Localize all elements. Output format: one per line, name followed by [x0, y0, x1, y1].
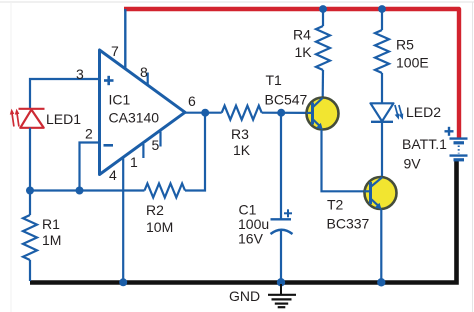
pin number 4 — [109, 167, 117, 183]
svg-text:BATT.1: BATT.1 — [402, 136, 447, 152]
svg-text:IC1: IC1 — [109, 92, 131, 108]
wire T2 emitter to ground — [380, 209, 382, 281]
wire pin 7 to V+ — [124, 9, 126, 70]
svg-text:8: 8 — [140, 64, 148, 80]
wire LED1 cathode down — [29, 128, 31, 191]
label T1 BC547 — [265, 72, 308, 108]
wire op-amp output node — [185, 112, 222, 114]
pin number 7 — [111, 43, 119, 59]
node junction R5/V+ — [378, 5, 386, 13]
svg-text:16V: 16V — [238, 231, 264, 247]
svg-text:1: 1 — [130, 154, 138, 170]
pin number 2 — [85, 126, 93, 142]
svg-text:1K: 1K — [295, 44, 313, 60]
svg-text:1M: 1M — [42, 232, 61, 248]
svg-text:5: 5 — [152, 137, 160, 153]
wire ground rail (black) — [30, 160, 457, 283]
wire pin 2 drop — [80, 143, 100, 191]
svg-text:10M: 10M — [146, 219, 173, 235]
label GND — [229, 288, 260, 304]
wire inverting net horizontal — [30, 189, 145, 191]
svg-text:LED2: LED2 — [406, 104, 441, 120]
svg-text:3: 3 — [76, 66, 84, 82]
node junction R4/V+ — [319, 5, 327, 13]
pin number 6 — [188, 93, 196, 109]
label C1 value — [238, 202, 269, 247]
wire T1 emitter to T2 base — [322, 130, 365, 192]
pin number 5 — [152, 137, 160, 153]
ground GND symbol — [268, 284, 296, 307]
label LED2 — [406, 104, 441, 120]
svg-text:BC547: BC547 — [265, 92, 308, 108]
svg-text:LED1: LED1 — [46, 111, 81, 127]
label BATT.1 9V — [402, 136, 447, 172]
capacitor C1 — [271, 113, 293, 281]
label R5 value — [396, 37, 429, 71]
svg-text:T2: T2 — [327, 197, 344, 213]
pin 5 stub — [159, 132, 161, 147]
svg-text:R5: R5 — [396, 37, 414, 53]
svg-text:BC337: BC337 — [327, 216, 370, 232]
resistor R3 — [222, 106, 307, 120]
transistor T2 BC337 — [364, 177, 397, 209]
wire LED2 to T2 collector — [381, 122, 383, 177]
label T2 BC337 — [327, 197, 370, 232]
svg-text:T1: T1 — [266, 72, 283, 88]
LED1 (red light sensor diode) — [10, 109, 45, 128]
node junction pin4/ground — [119, 278, 127, 286]
label R1 value — [42, 216, 61, 248]
wire node A: pin 3 / LED1 top — [30, 79, 100, 109]
svg-text:R1: R1 — [42, 216, 60, 232]
resistor R4 — [316, 9, 330, 98]
svg-text:R3: R3 — [231, 126, 249, 142]
label IC1 CA3140 — [109, 92, 160, 126]
svg-text:R4: R4 — [293, 27, 311, 43]
svg-text:7: 7 — [111, 43, 119, 59]
svg-text:GND: GND — [229, 288, 260, 304]
LED2 (blue diode) — [371, 103, 404, 122]
wire V+ rail (red) — [124, 9, 459, 138]
svg-text:9V: 9V — [404, 156, 422, 172]
node junction pin2 — [76, 187, 84, 195]
node junction T2 emitter/ground — [377, 278, 385, 286]
pin number 1 — [130, 154, 138, 170]
svg-text:4: 4 — [109, 167, 117, 183]
wire pin 4 to ground — [122, 159, 124, 282]
pin number 8 — [140, 64, 148, 80]
svg-text:R2: R2 — [146, 202, 164, 218]
pin 8 stub — [147, 73, 149, 86]
label LED1 — [46, 111, 81, 127]
label R4 value — [293, 27, 312, 61]
svg-text:2: 2 — [85, 126, 93, 142]
node junction C1/ground — [277, 278, 285, 286]
svg-text:1K: 1K — [233, 142, 251, 158]
label R2 value — [146, 202, 173, 235]
wire T1 collector to R4 — [322, 98, 324, 100]
node junction R3/T1 base/C1 — [277, 109, 285, 117]
resistor R5 — [375, 9, 389, 104]
svg-text:100E: 100E — [396, 55, 429, 71]
battery BATT.1 — [445, 127, 468, 160]
op-amp IC1 CA3140 — [100, 50, 186, 175]
pin number 3 — [76, 66, 84, 82]
resistor R2 — [145, 113, 206, 198]
resistor R1 — [23, 191, 37, 282]
svg-text:6: 6 — [188, 93, 196, 109]
svg-text:CA3140: CA3140 — [109, 110, 160, 126]
label R3 value — [231, 126, 251, 158]
pin 1 stub — [142, 144, 144, 158]
node junction output pin6 — [201, 109, 209, 117]
node junction LED1/R1 — [26, 187, 34, 195]
transistor T1 BC547 — [307, 98, 339, 130]
